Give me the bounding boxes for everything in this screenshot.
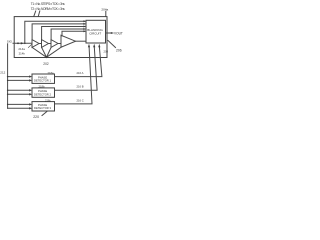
node input junction A: [17, 42, 19, 44]
wire tap 1 up: [32, 24, 85, 40]
node summing junction: [46, 56, 48, 58]
delay line block outline 200: [14, 17, 107, 58]
input bus vertical 210: [7, 44, 9, 109]
buffer amplifier A3: [51, 40, 58, 48]
leader for 220: [42, 112, 47, 116]
svg-text:SIG: SIG: [7, 40, 13, 44]
svg-text:214b: 214b: [19, 52, 26, 56]
node bus PD1 a: [7, 76, 8, 77]
arrowhead tap 2: [83, 26, 86, 28]
svg-text:208: 208: [104, 49, 109, 53]
wire A2 to A3: [49, 43, 52, 45]
svg-text:DETECTOR 2: DETECTOR 2: [34, 93, 51, 97]
node output junction: [111, 32, 113, 34]
wire signal input: [13, 42, 32, 44]
node tap junction B: [24, 43, 26, 45]
arrowhead PD3 a: [29, 103, 32, 105]
arrowhead tap 1: [83, 23, 86, 25]
wire A1 to A2: [39, 43, 42, 45]
svg-text:218b: 218b: [39, 85, 45, 89]
svg-text:218c: 218c: [45, 98, 51, 102]
wire bus stub PD3 b: [8, 107, 30, 109]
arrowhead tap 0: [83, 20, 86, 22]
svg-text:214a: 214a: [18, 47, 25, 51]
wire PD1 output: [55, 47, 102, 77]
wire bus stub PD2 a: [8, 89, 30, 91]
arrowhead PD1 b: [29, 79, 32, 81]
svg-text:VOUT: VOUT: [114, 31, 123, 35]
wire tap 3 up: [51, 29, 85, 40]
svg-text:206: 206: [116, 49, 122, 53]
svg-text:204a: 204a: [101, 8, 108, 12]
arrowhead input signal: [21, 42, 24, 44]
wire bus stub PD2 b: [8, 93, 30, 95]
wire summing diagonal from A4: [47, 47, 62, 57]
leader for 214a to buffer A1: [28, 44, 32, 47]
arrowhead tap 4: [83, 30, 86, 32]
buffer amplifier A1: [32, 40, 39, 48]
wire bus stub PD1 a: [8, 76, 30, 78]
node bus PD2 a: [7, 90, 8, 91]
clamp circuit block U2: [86, 20, 106, 43]
node bus PD2 b: [7, 94, 8, 95]
wire bus stub PD1 b: [8, 79, 30, 81]
leader from note to tap bus: [38, 11, 40, 16]
leader for 204: [105, 11, 107, 16]
svg-text:220: 220: [33, 115, 39, 119]
wire summing diagonal from A3: [47, 47, 52, 57]
arrowhead PD2 a: [29, 89, 32, 91]
leader for 206: [108, 41, 116, 48]
arrowhead PD3 b: [29, 107, 32, 109]
svg-text:DETECTOR 3: DETECTOR 3: [34, 106, 51, 110]
op-amp A4: [61, 35, 76, 47]
wire summing diagonal from A2: [42, 47, 47, 57]
wire tap 0 up: [25, 21, 85, 43]
svg-text:212: 212: [0, 70, 5, 74]
phase detector 3 box: [32, 102, 55, 111]
svg-text:T1 = No. STEPS x TCK = 3ns: T1 = No. STEPS x TCK = 3ns: [31, 2, 65, 6]
svg-text:DETECTOR 1: DETECTOR 1: [34, 79, 51, 83]
arrowhead PD1 output into clamp: [98, 44, 100, 47]
svg-text:216 C: 216 C: [77, 98, 84, 102]
phase detector 1 box: [32, 74, 55, 83]
wire summing diagonal from A1: [32, 47, 46, 57]
arrowhead tap 3: [83, 28, 86, 30]
wire bus stub PD3 a: [8, 103, 30, 105]
arrowhead PD2 output into clamp: [93, 44, 95, 47]
svg-text:216 B: 216 B: [77, 85, 84, 89]
wire A3 to A4: [58, 43, 61, 45]
arrowhead PD1 a: [29, 75, 32, 77]
node bus PD3 a: [7, 104, 8, 105]
wire PD3 output: [55, 47, 93, 104]
arrowhead PD2 b: [29, 93, 32, 95]
svg-text:218a: 218a: [48, 71, 54, 75]
wire A4 output to clamp circuit: [76, 40, 87, 42]
buffer amplifier A2: [42, 40, 49, 48]
svg-text:202: 202: [43, 62, 49, 66]
leader from note to delay line: [34, 11, 36, 16]
wire PD2 output: [55, 47, 98, 90]
wire tap 2 up: [42, 27, 85, 40]
svg-text:T2 = No. NORM x TCK = 3ns: T2 = No. NORM x TCK = 3ns: [31, 7, 65, 11]
wire tap 4 up: [62, 31, 85, 36]
svg-text:216 A: 216 A: [77, 71, 84, 75]
svg-text:CIRCUIT: CIRCUIT: [89, 32, 101, 36]
node bus PD1 b: [7, 80, 8, 81]
wire output VOUT: [106, 32, 114, 34]
phase detector 2 box: [32, 88, 55, 97]
arrowhead PD3 output into clamp: [88, 44, 90, 47]
